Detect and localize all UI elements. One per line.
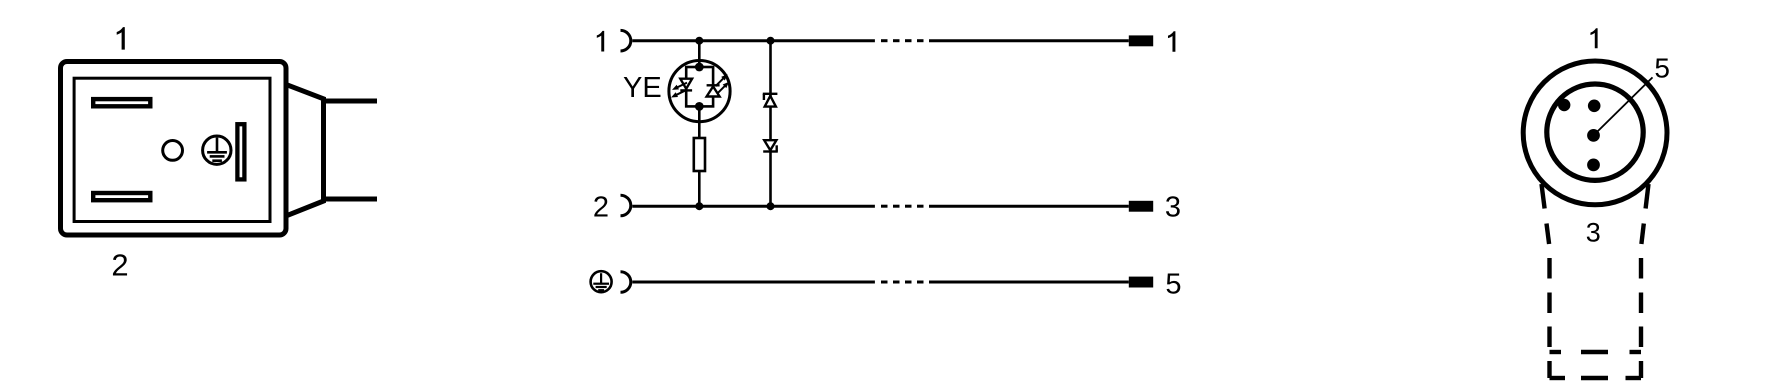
socket contact 1 arc <box>621 30 631 51</box>
ferrule wire 3 <box>1129 277 1153 288</box>
pin 2 blade slot <box>93 193 150 200</box>
M12 body dashed right <box>1641 184 1649 378</box>
socket contact PE arc <box>621 272 631 293</box>
label wire 2 left <box>593 192 609 224</box>
PE symbol (schematic) <box>591 271 612 292</box>
wire 1 <box>632 39 1129 42</box>
svg-text:5: 5 <box>1165 268 1181 300</box>
connector body outline <box>61 62 287 236</box>
LED bridge rectangle <box>686 41 713 107</box>
connector inner face <box>74 78 270 221</box>
wire 3 (PE) <box>632 281 1129 284</box>
node wire2/LED branch <box>695 202 703 210</box>
svg-text:5: 5 <box>1654 53 1670 84</box>
node wire1/LED branch <box>695 37 703 45</box>
ferrule wire 1 <box>1129 35 1153 46</box>
M12 outer circle <box>1523 61 1667 205</box>
ferrule wire 2 <box>1129 201 1153 212</box>
node wire1/suppressor branch <box>767 37 775 45</box>
label YE <box>623 72 662 104</box>
label wire 2 right <box>1165 192 1181 224</box>
zener diode Z1 (cathode up) <box>763 94 778 107</box>
label M12 pin 1 <box>1590 28 1597 48</box>
svg-text:3: 3 <box>1586 218 1601 248</box>
LED indicator circle <box>669 61 730 122</box>
M12 body dashed left <box>1542 184 1550 378</box>
M12 pin dot center <box>1587 129 1600 142</box>
M12 tip top edge dashes <box>1550 350 1642 354</box>
M12 keying dot <box>1558 99 1570 111</box>
label pin 2 (valve connector) <box>111 247 128 282</box>
wire 2 <box>632 205 1129 208</box>
center hole <box>163 141 183 161</box>
socket contact 2 arc <box>621 195 631 216</box>
node LED top <box>695 63 704 72</box>
node wire2/suppressor branch <box>767 202 775 210</box>
cable gland <box>286 84 324 216</box>
M12 pin dot bottom <box>1587 159 1600 172</box>
label M12 pin 3 <box>1586 218 1601 248</box>
pin 5 pointer line <box>1595 77 1653 134</box>
resistor R1 <box>694 138 705 171</box>
M12 inner circle <box>1547 84 1643 180</box>
label M12 pin 5 <box>1654 53 1670 84</box>
wire LED to resistor <box>698 106 701 138</box>
pin 1 blade slot <box>93 99 150 106</box>
node LED bottom <box>695 102 704 111</box>
svg-text:3: 3 <box>1165 192 1181 224</box>
cable wire bottom <box>324 197 378 202</box>
PE ground symbol (valve connector) <box>203 136 231 164</box>
M12 tip bottom edge dashes <box>1550 376 1642 380</box>
suppressor branch wire <box>769 41 772 207</box>
LED D2 (right, cathode up) <box>707 74 730 96</box>
zener diode Z2 (cathode down) <box>763 140 778 151</box>
M12 pin dot top <box>1588 100 1601 113</box>
label pin 1 (valve connector) <box>117 27 125 49</box>
label wire 1 right <box>1168 31 1175 52</box>
LED D1 (left, cathode down) <box>671 79 692 98</box>
svg-text:2: 2 <box>593 192 609 224</box>
label wire 1 left <box>597 31 604 52</box>
label wire 3 right <box>1165 268 1181 300</box>
PE blade slot <box>237 124 244 179</box>
wire resistor to wire 2 <box>698 171 701 206</box>
svg-text:YE: YE <box>623 72 662 104</box>
cable wire top <box>324 99 378 104</box>
svg-text:2: 2 <box>111 247 128 282</box>
